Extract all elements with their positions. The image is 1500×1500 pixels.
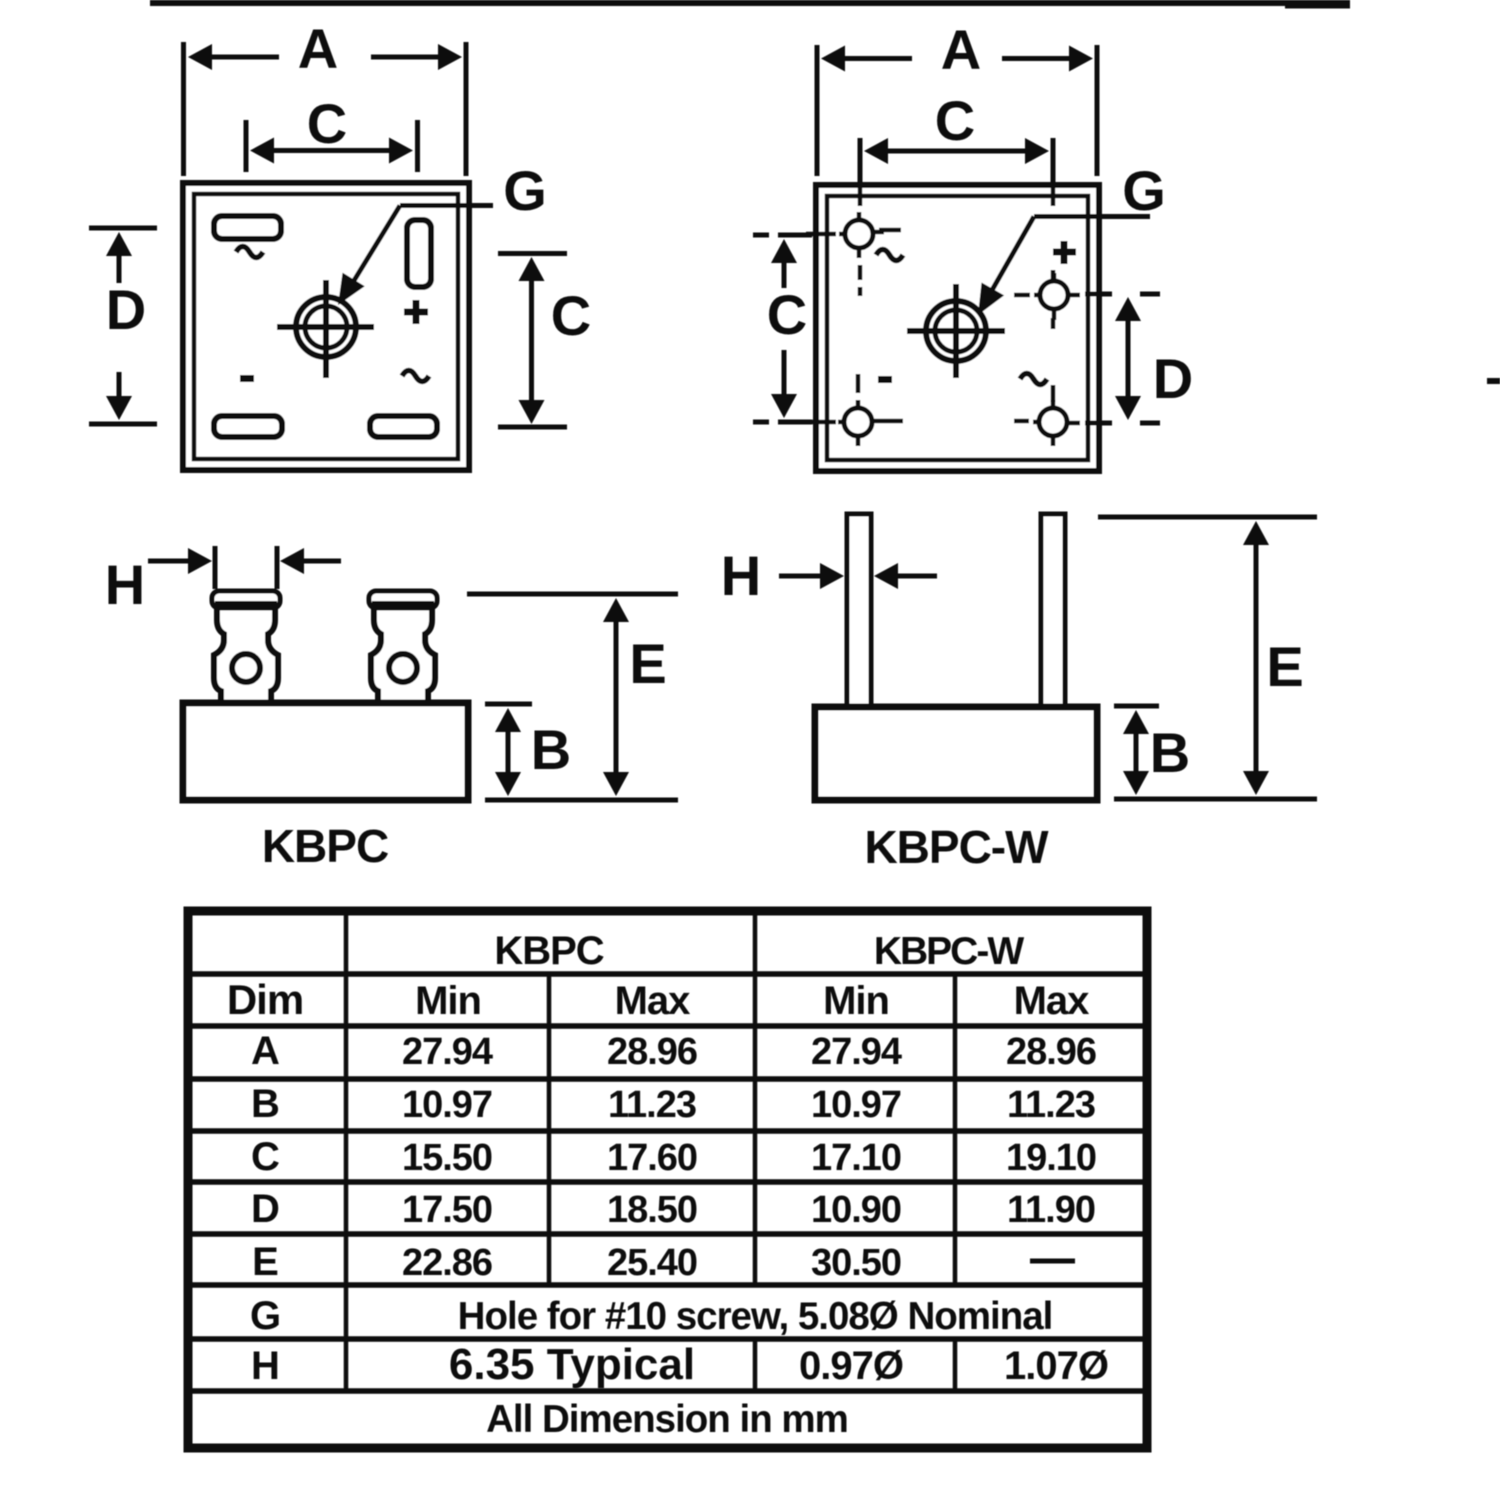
dim B (KBPC) arrow line [495,708,521,796]
KBPC-W pin hole centerline dashes bottom-right [1014,385,1053,421]
svg-text:H: H [721,544,761,607]
KBPC faston terminal 1 [212,591,280,705]
table row H KBPC-W min [799,1344,903,1388]
dim C (KBPC-W left) label C [767,283,807,346]
svg-text:E: E [252,1240,278,1284]
dim C (KBPC right) arrow line [519,257,545,424]
svg-text:H: H [251,1344,279,1388]
dim C (KBPC-W top) label C [935,89,975,152]
svg-text:C: C [251,1135,279,1179]
KBPC terminal pad bottom-right [370,416,437,437]
KBPC faston terminal 2 [369,591,437,705]
dim D (KBPC-W right) label D [1153,347,1193,410]
dim E (KBPC) bottom extension line [485,798,678,803]
svg-text:B: B [251,1082,279,1126]
KBPC-W pin hole bottom-right [1033,400,1080,446]
svg-text:Hole for #10 screw, 5.08Ø Nomi: Hole for #10 screw, 5.08Ø Nominal [458,1295,1053,1338]
table row A KBPC max [607,1031,697,1073]
dim D (KBPC-W right) arrow line [1115,297,1141,420]
KBPC-W pin hole top-left [839,212,884,258]
label KBPC [262,820,388,872]
table row D KBPC min [402,1189,492,1231]
dim D (KBPC) lower arrow [106,372,132,420]
table row D label [251,1187,279,1231]
svg-text:18.50: 18.50 [607,1189,697,1231]
KBPC-W mounting hole inner circle [935,310,977,352]
dim A (KBPC-W) left extension line [815,45,820,176]
svg-text:25.40: 25.40 [607,1242,697,1284]
dim A (KBPC-W) left arrow [821,46,912,72]
table row H label [251,1344,279,1388]
dim A (KBPC) left extension line [181,42,186,176]
dim E (KBPC-W) bottom extension line [1114,797,1317,802]
table row A KBPC-W min [811,1031,902,1073]
dim H (KBPC-W) left arrow [779,563,844,589]
dim H (KBPC) left arrow [148,548,212,574]
table vertical line col4 H-row [953,1339,958,1391]
table row A KBPC min [402,1031,493,1073]
KBPC terminal pad top-left [214,216,281,239]
table row A label [251,1029,279,1073]
svg-text:1.07Ø: 1.07Ø [1004,1344,1108,1388]
dim D (KBPC-W right) bottom extension [1085,421,1160,426]
table header Max (KBPC) [615,979,691,1023]
table row B KBPC max [608,1084,696,1126]
table header Max (KBPC-W) [1014,979,1090,1023]
table horizontal line 6 [188,1231,1147,1237]
table row C KBPC max [607,1137,697,1179]
table row D KBPC-W min [811,1189,901,1231]
KBPC-W wire lead 1 [847,514,871,707]
svg-text:G: G [503,159,547,222]
dim C (KBPC-W left) top extension dashes [753,233,812,238]
label G (KBPC-W) [1122,159,1166,222]
dim C (KBPC-W top) left tick [858,138,863,204]
svg-text:15.50: 15.50 [402,1137,492,1179]
KBPC body rectangle [183,703,468,800]
KBPC-W hole crosshair horizontal [907,328,1005,334]
dim D (KBPC) bottom extension line [89,422,157,427]
KBPC-W package inner square [827,196,1088,460]
svg-text:D: D [106,278,146,341]
dim A (KBPC-W) right extension line [1095,45,1100,176]
svg-text:10.90: 10.90 [811,1189,901,1231]
svg-text:A: A [251,1029,279,1073]
svg-text:B: B [1150,721,1190,784]
svg-text:C: C [935,89,975,152]
table outer border [188,911,1147,1448]
svg-text:10.97: 10.97 [402,1084,492,1126]
dim H (KBPC) label H [105,553,145,616]
svg-text:0.97Ø: 0.97Ø [799,1344,903,1388]
table vertical line col3 upper [753,911,758,1285]
KBPC hole crosshair horizontal [277,324,374,330]
table row E KBPC min [402,1242,492,1284]
svg-text:Dim: Dim [227,976,303,1023]
svg-text:11.90: 11.90 [1007,1189,1095,1231]
table horizontal line 5 [188,1179,1147,1185]
dim A (KBPC-W) label A [941,18,981,81]
KBPC-W pin hole centerline dashes right-middle [1014,188,1053,329]
dim H (KBPC) right arrow [280,548,341,574]
svg-text:28.96: 28.96 [1006,1031,1096,1073]
dim B (KBPC) top extension line [485,702,532,707]
KBPC-W ac mark ~ top-left [876,250,903,261]
KBPC-W wire lead 2 [1041,514,1065,707]
scan artifact top border line [150,3,1350,6]
svg-text:A: A [298,17,338,80]
KBPC-W pin hole centerline dashes top-left [806,188,901,296]
dim C (KBPC right) label C [551,284,591,347]
KBPC hole crosshair vertical [323,280,329,378]
table horizontal line 2 [188,1023,1147,1029]
table row B label [251,1082,279,1126]
table row C label [251,1135,279,1179]
svg-text:10.97: 10.97 [811,1084,901,1126]
KBPC package outer square [183,183,469,470]
table row D KBPC max [607,1189,697,1231]
KBPC-W pin hole right-middle [1034,273,1080,320]
svg-text:C: C [767,283,807,346]
svg-text:6.35 Typical: 6.35 Typical [449,1340,695,1389]
table row H typical [449,1340,695,1389]
svg-text:E: E [1266,635,1303,698]
svg-text:C: C [307,92,347,155]
dim E (KBPC-W) top extension line [1098,515,1317,520]
svg-text:11.23: 11.23 [1007,1084,1095,1126]
KBPC-W pin hole centerline dashes bottom-left [806,374,903,422]
svg-text:All Dimension in mm: All Dimension in mm [486,1398,848,1441]
KBPC-W hole crosshair vertical [953,284,959,378]
table header KBPC-W [874,930,1024,973]
svg-text:22.86: 22.86 [402,1242,492,1284]
table footer all dimensions [486,1398,848,1441]
table horizontal line 4 [188,1128,1147,1134]
KBPC-W ac mark ~ bottom-right [1020,374,1047,385]
table row H KBPC-W max [1004,1344,1108,1388]
table row D KBPC-W max [1007,1189,1095,1231]
svg-text:19.10: 19.10 [1006,1137,1096,1179]
table header KBPC [494,929,603,973]
KBPC mounting hole inner circle [305,306,347,348]
hole G leader line (KBPC-W) [978,217,1150,316]
KBPC terminal pad bottom-left [214,416,282,437]
table row B KBPC-W min [811,1084,901,1126]
table row C KBPC min [402,1137,492,1179]
dim C (KBPC right) bottom extension line [498,425,567,430]
table row E KBPC max [607,1242,697,1284]
dim C (KBPC top) right tick [415,120,420,172]
dim A (KBPC) label A [298,17,338,80]
dim E (KBPC) arrow line [603,598,629,796]
KBPC ac mark ~ top-left [236,247,263,258]
table vertical line col3 H-row [753,1339,758,1391]
svg-text:G: G [250,1294,280,1338]
dim A (KBPC) right extension line [464,42,469,176]
svg-text:11.23: 11.23 [608,1084,696,1126]
svg-text:27.94: 27.94 [402,1031,493,1073]
table row E KBPC-W max [0,0,1,1]
KBPC package inner square [194,194,458,459]
label G (KBPC) [503,159,547,222]
dim E (KBPC) label E [629,632,666,695]
KBPC-W mounting hole outer circle [926,301,986,361]
svg-text:D: D [1153,347,1193,410]
dim D (KBPC) upper arrow [106,232,132,283]
dim C (KBPC-W left) bottom extension dashes [753,420,812,425]
table row C KBPC-W min [811,1137,901,1179]
table row E KBPC-W min [811,1242,901,1284]
table row G note [458,1295,1053,1338]
table row B KBPC-W max [1007,1084,1095,1126]
dim C (KBPC top) label C [307,92,347,155]
KBPC terminal pad right (vertical) [407,220,431,287]
dim H (KBPC-W) right arrow [874,563,937,589]
dim C (KBPC-W top) arrow line [864,138,1049,164]
dim B (KBPC-W) arrow line [1123,710,1149,795]
dim D (KBPC) top extension line [89,226,157,231]
svg-text:Max: Max [615,979,691,1023]
table row A KBPC-W max [1006,1031,1096,1073]
svg-text:A: A [941,18,981,81]
dim H (KBPC) right tick [275,546,280,589]
dim A (KBPC) right arrow [371,44,462,70]
label KBPC-W [864,821,1049,873]
table horizontal line 9 [188,1388,1147,1394]
KBPC-W minus mark - [878,376,892,383]
table vertical line col2 [547,974,552,1285]
svg-text:Min: Min [823,979,889,1023]
table header Min (KBPC-W) [823,979,889,1023]
svg-text:17.10: 17.10 [811,1137,901,1179]
dim H (KBPC-W) label H [721,544,761,607]
KBPC-W pin hole bottom-left [838,400,884,446]
dim C (KBPC-W left) upper arrow [771,239,797,288]
KBPC ac mark ~ bottom-right [402,371,429,382]
KBPC plus mark + [404,300,428,324]
table header Min (KBPC) [415,979,481,1023]
KBPC-W body rectangle [815,707,1097,800]
table row E label [252,1240,278,1284]
svg-text:G: G [1122,159,1166,222]
dim D (KBPC-W right) top extension [1085,292,1160,297]
table row E KBPC-W max dash [1030,1259,1075,1264]
table row G label [250,1294,280,1338]
svg-text:KBPC-W: KBPC-W [874,930,1024,973]
dim E (KBPC) top extension line [467,592,678,597]
table header Dim [227,976,303,1023]
svg-text:KBPC: KBPC [262,820,388,872]
dim A (KBPC) left arrow [188,44,279,70]
dim C (KBPC-W top) right tick [1051,138,1056,204]
table row C KBPC-W max [1006,1137,1096,1179]
table vertical line col1 [344,911,349,1391]
dim B (KBPC) label B [531,718,571,781]
svg-text:Max: Max [1014,979,1090,1023]
table row B KBPC min [402,1084,492,1126]
dim C (KBPC top) left tick [244,120,249,172]
KBPC minus mark - [240,375,254,382]
table horizontal line 3 [188,1076,1147,1082]
table horizontal line 8 [188,1336,1147,1342]
hole G leader line (KBPC) [338,206,493,306]
dim C (KBPC-W left) lower arrow [771,350,797,418]
dim E (KBPC-W) arrow line [1243,521,1269,795]
svg-text:KBPC: KBPC [494,929,603,973]
scan artifact right edge dash [1487,378,1500,384]
table horizontal line 7 [188,1282,1147,1288]
table vertical line col4 upper [953,974,958,1285]
dim E (KBPC-W) label E [1266,635,1303,698]
dim A (KBPC-W) right arrow [1002,46,1093,72]
svg-text:E: E [629,632,666,695]
svg-text:28.96: 28.96 [607,1031,697,1073]
svg-text:Min: Min [415,979,481,1023]
dim D (KBPC) label D [106,278,146,341]
svg-text:H: H [105,553,145,616]
table horizontal line 1 [188,971,1147,977]
svg-text:17.50: 17.50 [402,1189,492,1231]
svg-text:30.50: 30.50 [811,1242,901,1284]
KBPC-W package outer square [816,185,1099,471]
svg-text:KBPC-W: KBPC-W [864,821,1049,873]
dim C (KBPC right) top extension line [498,251,567,256]
KBPC mounting hole outer circle [296,297,356,357]
KBPC-W plus mark + [1053,241,1076,264]
svg-text:C: C [551,284,591,347]
dim B (KBPC-W) top extension line [1114,704,1159,709]
svg-text:27.94: 27.94 [811,1031,902,1073]
svg-text:B: B [531,718,571,781]
dim B (KBPC-W) label B [1150,721,1190,784]
svg-text:D: D [251,1187,279,1231]
dim H (KBPC) left tick [213,546,218,589]
svg-text:17.60: 17.60 [607,1137,697,1179]
dim C (KBPC top) arrow line [250,138,413,164]
